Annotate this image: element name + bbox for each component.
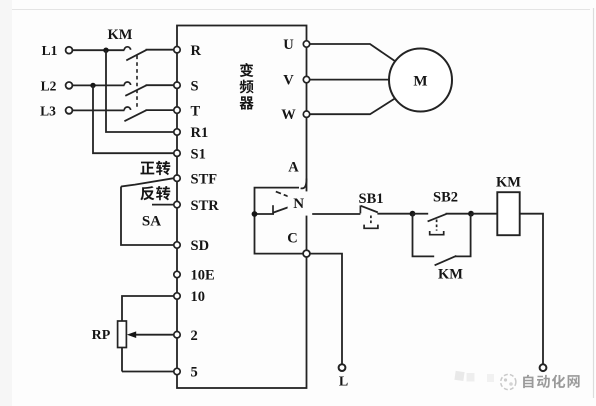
svg-text:2: 2 — [191, 328, 198, 344]
svg-text:SB2: SB2 — [433, 189, 458, 205]
svg-text:A: A — [288, 159, 299, 175]
svg-text:M: M — [413, 74, 427, 90]
svg-text:S: S — [191, 78, 199, 94]
svg-text:10E: 10E — [191, 268, 215, 284]
svg-text:KM: KM — [108, 27, 133, 43]
svg-text:SB1: SB1 — [359, 191, 384, 207]
svg-text:RP: RP — [92, 328, 111, 343]
svg-text:R: R — [191, 43, 202, 59]
svg-text:W: W — [281, 107, 296, 123]
svg-text:KM: KM — [438, 267, 463, 283]
svg-text:L1: L1 — [42, 43, 58, 58]
svg-text:5: 5 — [191, 365, 198, 381]
svg-text:V: V — [283, 73, 294, 89]
svg-text:L3: L3 — [40, 103, 56, 118]
svg-text:10: 10 — [191, 289, 206, 305]
svg-text:U: U — [283, 37, 294, 53]
svg-text:C: C — [287, 230, 297, 246]
svg-text:STF: STF — [191, 171, 218, 187]
svg-text:R1: R1 — [191, 125, 209, 141]
svg-text:S1: S1 — [191, 146, 206, 162]
svg-text:T: T — [191, 103, 201, 119]
svg-text:SA: SA — [142, 214, 161, 230]
svg-text:KM: KM — [496, 174, 521, 190]
svg-text:N: N — [293, 196, 304, 212]
svg-text:L2: L2 — [41, 78, 57, 93]
svg-text:STR: STR — [191, 198, 220, 214]
svg-text:SD: SD — [191, 238, 210, 254]
svg-text:L: L — [339, 375, 348, 390]
